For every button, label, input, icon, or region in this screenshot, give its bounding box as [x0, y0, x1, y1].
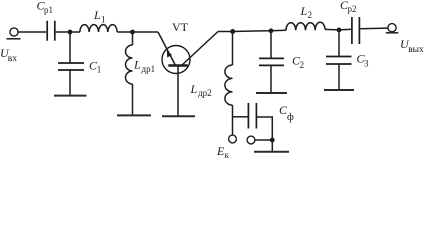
svg-text:1: 1: [101, 14, 106, 24]
terminal Ek: [229, 135, 237, 143]
wire L1 to emitter bend: [117, 31, 158, 33]
svg-text:2: 2: [300, 60, 305, 70]
inductor L2: [286, 22, 325, 30]
wire Cp2 to output: [360, 27, 388, 30]
label Ek: [216, 144, 230, 160]
capacitor Cf: [248, 103, 256, 129]
wire Ldr1 to ground: [132, 84, 134, 115]
wire Cp1 to L1: [56, 31, 80, 33]
svg-text:3: 3: [364, 59, 369, 69]
capacitor Cp1: [47, 21, 55, 41]
capacitor C3: [326, 57, 352, 65]
transistor VT base bar: [168, 64, 188, 66]
ground under C2: [256, 92, 287, 94]
wire Ldr2 tap down: [232, 32, 234, 66]
svg-text:L: L: [190, 82, 198, 96]
label Uvx: [0, 46, 17, 64]
label Ldr1: [133, 58, 155, 74]
input terminal underline: [7, 38, 21, 40]
ground under C3: [324, 89, 354, 91]
label Cp1: [37, 0, 54, 15]
wire L2 to Cp2: [325, 28, 352, 31]
svg-text:L: L: [93, 8, 101, 22]
label C3: [357, 52, 370, 69]
svg-text:L: L: [300, 4, 308, 18]
wire input to Cp1: [18, 31, 46, 33]
ground under base: [162, 115, 195, 117]
svg-text:2: 2: [308, 10, 313, 20]
label Cf: [279, 103, 294, 123]
node junction at Ldr2 tap: [230, 29, 235, 34]
ground under C1: [54, 95, 87, 97]
svg-text:вых: вых: [408, 45, 424, 55]
emitter lead (input diagonal): [158, 32, 176, 66]
svg-text:р2: р2: [348, 4, 357, 14]
ground under Ldr1: [117, 114, 151, 116]
label Cp2: [340, 0, 357, 14]
wire Cf tap: [233, 116, 249, 118]
wire C1 tap down: [69, 32, 71, 63]
inductor Ldr1: [126, 45, 133, 84]
svg-text:р1: р1: [44, 5, 53, 15]
svg-text:1: 1: [97, 65, 102, 75]
node junction at Ldr1 tap: [130, 30, 135, 35]
node junction below Cf: [270, 138, 275, 143]
collector lead: [182, 32, 219, 66]
label C1: [89, 58, 101, 74]
label Uvyx: [400, 37, 424, 55]
svg-text:VT: VT: [172, 20, 189, 34]
svg-text:др2: др2: [198, 88, 212, 98]
capacitor C1: [58, 63, 84, 70]
node junction at C2 tap: [269, 28, 274, 33]
base lead down: [177, 66, 179, 116]
wire C2 tap down: [270, 31, 272, 59]
inductor L1: [80, 25, 117, 32]
node junction at C1 tap: [68, 30, 73, 35]
inductor Ldr2: [225, 65, 233, 105]
label L2: [300, 4, 313, 20]
wire Ldr1 tap down: [132, 32, 134, 45]
node junction at C3 tap: [337, 28, 342, 33]
emitter arrow: [167, 50, 172, 57]
wire C1 to ground: [69, 70, 71, 95]
svg-text:L: L: [133, 58, 141, 72]
transistor VT circle: [162, 46, 190, 74]
wire Ldr2 to Ek terminal: [232, 105, 234, 135]
input terminal: [10, 28, 18, 36]
label L1: [93, 8, 106, 24]
capacitor Cp2: [352, 17, 360, 44]
wire collector to L2: [218, 30, 286, 31]
capacitor C2: [259, 58, 284, 65]
wire Cf right to corner: [256, 117, 272, 151]
wire C3 to ground: [338, 64, 340, 90]
wire C3 tap down: [338, 30, 340, 57]
output terminal: [388, 24, 396, 32]
terminal Ek return: [247, 136, 255, 144]
svg-text:ф: ф: [287, 112, 294, 123]
svg-text:к: к: [225, 150, 230, 159]
label C2: [292, 53, 304, 70]
svg-text:др1: др1: [142, 64, 156, 74]
svg-text:вх: вх: [8, 54, 17, 64]
label Ldr2: [190, 82, 212, 98]
wire C2 to ground: [270, 65, 272, 92]
wire Ek return terminal to junction: [255, 139, 272, 141]
output terminal underline: [386, 32, 399, 34]
ground under Cf: [254, 151, 289, 153]
